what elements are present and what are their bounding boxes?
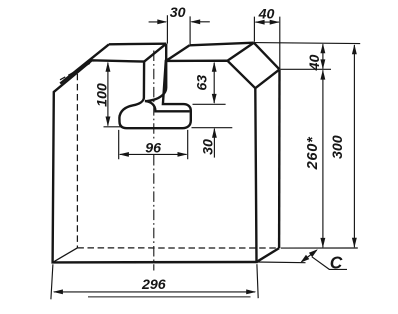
dim 300: dimension line [353,45,355,247]
svg-text:96: 96 [145,140,161,156]
svg-text:30: 30 [170,5,186,21]
svg-text:C: C [330,253,343,273]
chamfer C double arrowheads [300,255,309,263]
back top edge (right of slot) [190,43,254,46]
bottom edge thin extension [257,261,306,264]
chamfer diamond: depth line top [227,43,253,61]
dim 30 top: extension lines [167,15,190,45]
dim 40 top: dimension line [255,21,279,23]
dim 296: extension lines [51,264,258,299]
dim 63: dimension line [213,63,215,103]
slot centerline (dash-dot) [153,51,155,139]
hidden back-left edge (dashed) [76,74,78,248]
bottom-right depth line (chamfer C corner) [257,248,279,262]
dimension texts [94,5,346,293]
extension line at back chamfer bottom [280,68,331,70]
hidden back bottom edge (dashed) [77,247,277,249]
dim 260*: dimension line [322,70,324,247]
dim 296: dimension line [54,291,255,293]
dim 100: bottom extension [104,126,121,128]
svg-text:260*: 260* [305,136,321,170]
bottom-left depth line [53,248,78,263]
chamfer diamond: depth line bottom [255,69,279,88]
svg-text:300: 300 [330,135,346,159]
back top edge (left of slot) [109,43,166,46]
back chamfer edge (top-left) [60,44,109,83]
top extension line to the right [254,43,360,44]
chamfer C leader and shelf [312,257,347,270]
dim 96: dimension line [120,153,187,155]
bottom thin rule [88,296,251,298]
back right edge [278,69,281,248]
dim 30 top: dimension lines [149,21,210,23]
back bulb floor edge (seen through slot) [145,101,190,111]
chamfer C oblique double arrow [302,250,317,262]
slot-right depth line [166,45,190,61]
svg-text:63: 63 [195,75,211,91]
svg-text:100: 100 [94,83,110,107]
bottom-right extension line [281,247,358,249]
svg-text:40: 40 [258,6,275,22]
slot-left depth line [144,44,166,62]
dim 30 bottom-right: dimension line [213,129,215,158]
svg-text:30: 30 [201,139,217,155]
arrowheads [53,19,357,294]
svg-text:40: 40 [307,55,323,72]
dim 40 right: dimension line [322,44,324,68]
front face outline with T-slot profile [53,60,257,262]
svg-text:296: 296 [141,277,166,293]
dim 100: dimension line [107,63,109,126]
chamfer diamond: back chamfer edge [254,43,280,70]
hidden back chamfer (dashed diagonal) [60,62,93,80]
back slot-left wall edge and flare into bulb [146,44,167,102]
dim 40 top: extension lines [254,17,279,69]
dim 30 bottom-right: extension [192,127,233,129]
dim 96: extension lines [119,130,188,159]
dim 63: bottom extension [193,103,226,105]
